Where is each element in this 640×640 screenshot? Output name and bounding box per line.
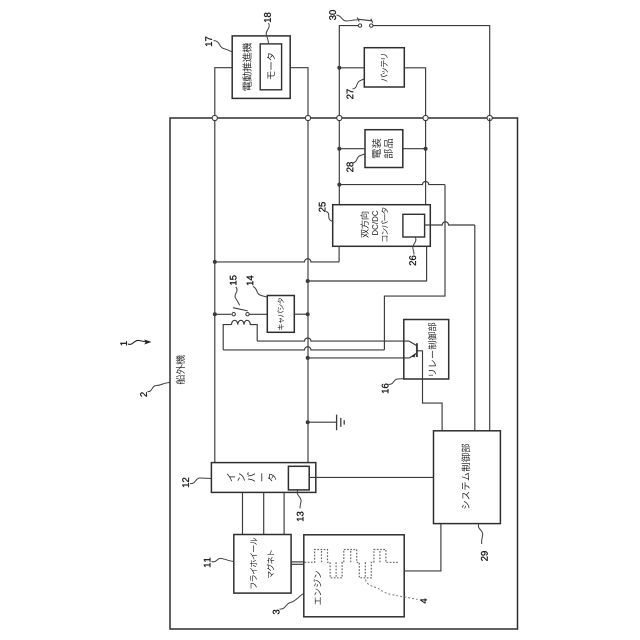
inner box 13 in inverter <box>288 466 309 490</box>
label 27 <box>347 89 354 99</box>
inverter box 12 (インバータ) <box>211 463 315 493</box>
label 16 <box>382 384 389 393</box>
engine to system controller wire <box>404 524 441 571</box>
leader 13 <box>297 491 301 509</box>
relay control unit box 16 (リレー制御部) <box>404 320 449 380</box>
vertical from right terminal to system controller <box>489 118 491 431</box>
leader 15 <box>235 287 240 305</box>
wire elec-components left <box>339 148 365 150</box>
battery box 27 (バッテリ) <box>364 48 404 87</box>
wire box26 to system controller <box>425 222 475 225</box>
leader 29 <box>478 524 482 544</box>
leader for label 2 <box>148 383 170 392</box>
wire inverter to system controller <box>309 476 433 478</box>
battery right wire <box>404 68 425 118</box>
outboard-motor boundary box (船外機) <box>170 118 518 629</box>
label 船外機 (outboard motor) <box>176 355 185 384</box>
label 2 <box>140 392 147 396</box>
relay 15 blade <box>233 308 248 311</box>
label 13 <box>297 512 304 521</box>
wire motor-left to hull terminal <box>215 68 232 118</box>
battery left wire <box>339 67 364 69</box>
label 14 <box>247 276 254 286</box>
label 3 <box>273 610 280 615</box>
leader 16 <box>389 379 404 385</box>
label 17 <box>205 37 212 46</box>
crank pulse waveform 4 (dashed) <box>305 550 399 578</box>
battery switch 30 <box>329 10 336 20</box>
switch 30 contacts and blade <box>359 19 373 21</box>
wire from DC/DC top-feed (supply to relay coil) <box>339 181 445 184</box>
relay coil left wire to control <box>223 325 231 350</box>
wire switch to capacitor <box>250 313 268 315</box>
leader 14 <box>253 287 267 298</box>
hull terminals (open circles) on boundary top edge <box>212 115 217 120</box>
label 29 <box>481 551 488 561</box>
motor box 18 (モータ) <box>260 44 281 90</box>
label 4 <box>420 599 427 604</box>
wire capacitor right to bus <box>294 313 307 315</box>
wire DC/DC bottom to motor bus <box>338 246 340 262</box>
left motor bus vertical <box>214 118 216 463</box>
right bus vertical to DC/DC <box>425 118 427 205</box>
leader 11 <box>212 558 234 561</box>
label 28 <box>347 162 354 172</box>
supply wire down/left/down to relay coil <box>384 185 445 350</box>
leader 3 <box>280 594 304 610</box>
engine box 3 (エンジン) <box>304 535 404 617</box>
wire motor-right to hull terminal <box>290 68 308 118</box>
three-phase wires inverter to magneto <box>242 492 244 534</box>
wire switch left to battery bus <box>339 26 358 66</box>
label 15 <box>230 275 237 284</box>
wire switch right to hull terminal right <box>373 26 490 118</box>
flywheel magneto box 11 <box>234 535 291 594</box>
wire capacitor bus to DC/DC bottom <box>308 246 427 281</box>
leader 25 <box>326 212 333 222</box>
label 26 <box>409 256 416 266</box>
electric propulsion unit box 17 (電動推進機) <box>232 36 290 99</box>
label 11 <box>204 558 211 567</box>
battery bus left vertical <box>338 66 340 205</box>
leader 17 <box>214 41 233 53</box>
leader 26 <box>413 238 416 255</box>
capacitor box 14 (キャパシタ) <box>267 296 294 333</box>
label 12 <box>182 478 189 487</box>
relay coil <box>232 320 251 324</box>
relay coil right wire to transistor collector <box>250 325 257 342</box>
leader 28 <box>353 154 365 163</box>
crankshaft coupling <box>291 561 304 563</box>
electrical components box 28 (電装部品) <box>365 130 403 168</box>
wire elec-components right <box>403 148 426 150</box>
transistor base to system controller <box>417 351 442 431</box>
emitter wire from bus <box>308 357 410 359</box>
right motor bus vertical <box>307 118 309 463</box>
relay switch 15 wire <box>215 313 231 315</box>
label 25 <box>319 202 326 212</box>
ground symbol <box>308 421 337 423</box>
inner box 26 <box>403 214 425 237</box>
leader 30 <box>337 15 358 21</box>
leader 18 <box>266 23 269 44</box>
leader 27 <box>353 79 365 90</box>
bidirectional DC/DC converter box 25 <box>333 205 431 247</box>
system control unit box 29 (システム制御部) <box>434 431 501 524</box>
transistor Q in relay control <box>416 343 418 357</box>
label 18 <box>264 13 271 22</box>
leader 12 <box>190 478 211 484</box>
leader 4 (dotted) <box>366 580 418 600</box>
label 1 with arrow <box>120 341 127 345</box>
